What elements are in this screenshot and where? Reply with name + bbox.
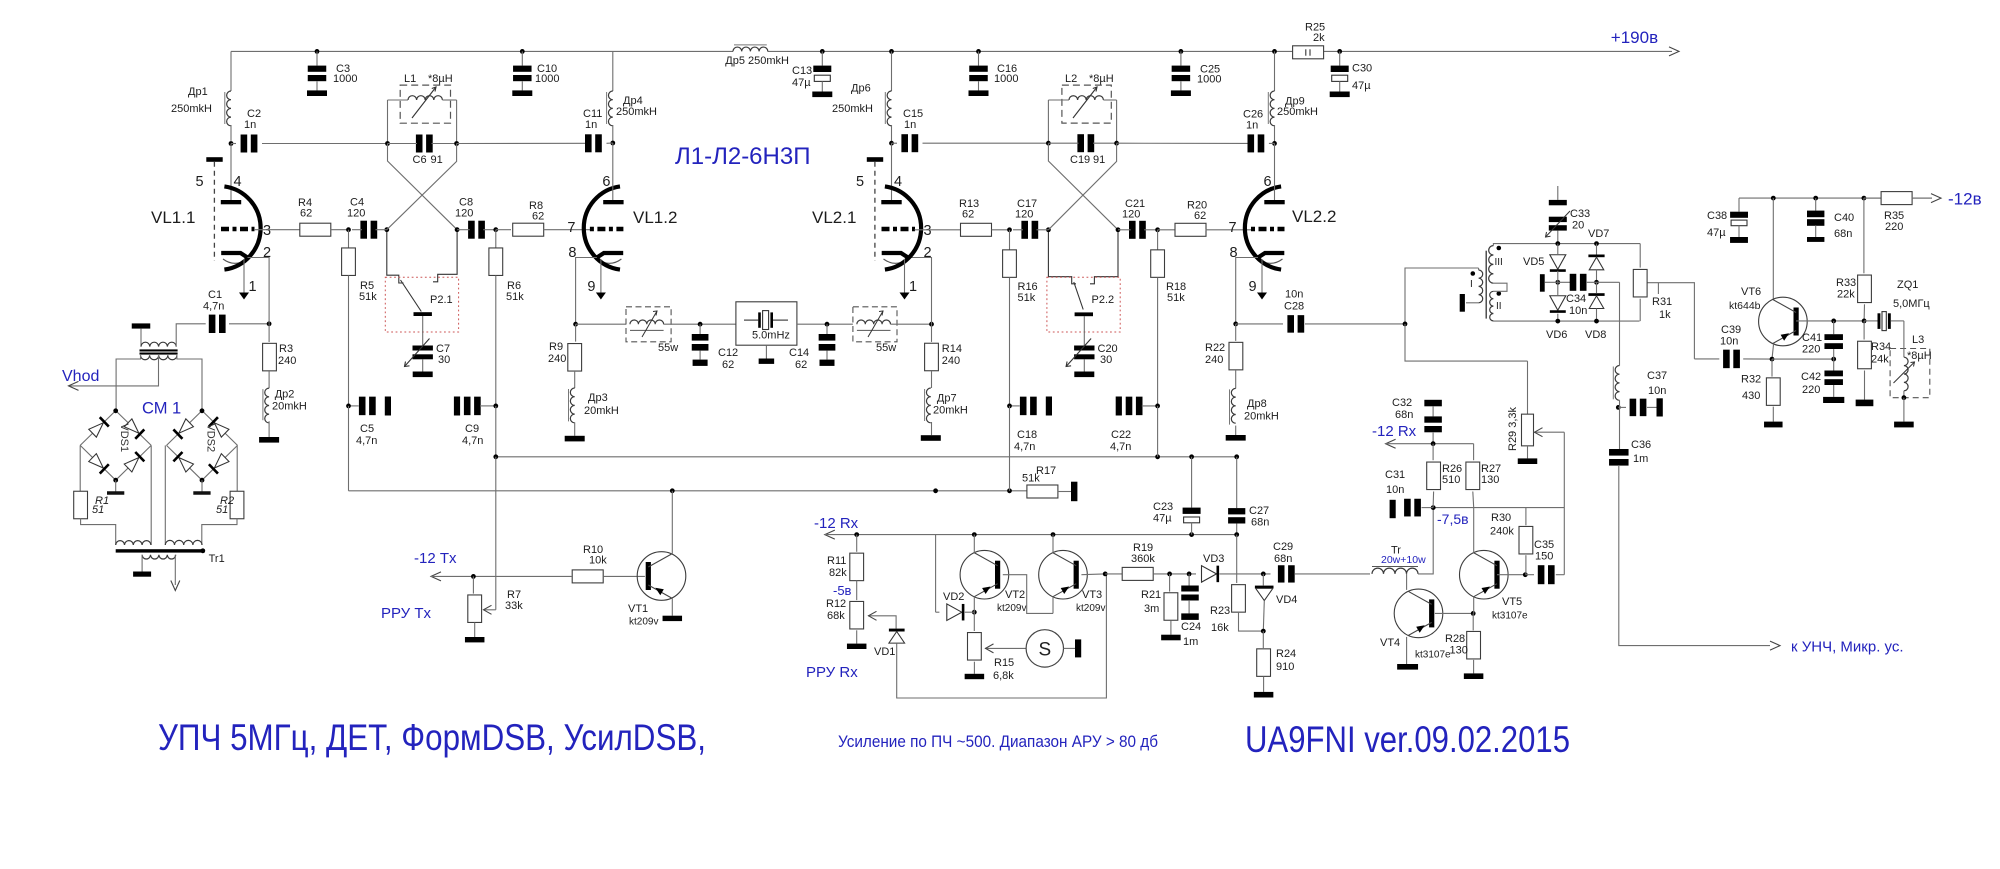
svg-text:68n: 68n xyxy=(1274,553,1292,565)
wire VT3 lower xyxy=(1052,597,1054,614)
svg-text:C9: C9 xyxy=(465,423,479,435)
capacitor C30 polarized xyxy=(1339,51,1341,65)
svg-text:C18: C18 xyxy=(1017,429,1037,441)
wire Tr out up xyxy=(1418,508,1433,574)
wire cross-couple X left xyxy=(388,144,458,230)
svg-text:220: 220 xyxy=(1802,344,1820,356)
wire VL1.2 cathode xyxy=(576,258,597,325)
wire VD5-mid xyxy=(1557,271,1559,283)
capacitor C20 30 variable xyxy=(1083,316,1085,346)
node dot C9 xyxy=(493,404,498,409)
wire secondary right to VDS2 xyxy=(177,355,202,411)
svg-text:7: 7 xyxy=(1229,220,1237,236)
svg-text:Др6: Др6 xyxy=(851,83,871,95)
resistor R20 62 xyxy=(1158,229,1176,231)
node dot R21 top xyxy=(1167,572,1172,577)
svg-text:*8µH: *8µH xyxy=(1907,350,1932,362)
svg-text:C27: C27 xyxy=(1249,505,1269,517)
node dot C32 R26 xyxy=(1431,441,1436,446)
svg-text:C22: C22 xyxy=(1111,429,1131,441)
svg-text:120: 120 xyxy=(347,208,365,220)
capacitor C16 xyxy=(978,51,980,65)
svg-text:120: 120 xyxy=(455,208,473,220)
wire L2 right leg xyxy=(1116,100,1118,143)
svg-text:C30: C30 xyxy=(1352,63,1372,75)
wire C27 to R23 xyxy=(1236,535,1238,583)
svg-text:20mkH: 20mkH xyxy=(584,405,619,417)
svg-text:68n: 68n xyxy=(1834,228,1852,240)
node dot C37 xyxy=(1616,405,1621,410)
node dot C5 xyxy=(346,404,351,409)
resistor R4 62 xyxy=(300,223,331,236)
svg-text:C34: C34 xyxy=(1566,293,1586,305)
svg-text:62: 62 xyxy=(300,208,312,220)
capacitor C10 xyxy=(521,51,523,65)
svg-text:Tr1: Tr1 xyxy=(209,553,225,565)
svg-text:16k: 16k xyxy=(1211,622,1229,634)
svg-text:C35: C35 xyxy=(1534,539,1554,551)
svg-text:9: 9 xyxy=(587,279,595,295)
resistor R27 130 xyxy=(1473,444,1475,461)
svg-text:R15: R15 xyxy=(994,657,1014,669)
transformer det secondary II xyxy=(1490,291,1494,321)
svg-text:C40: C40 xyxy=(1834,212,1854,224)
svg-text:R28: R28 xyxy=(1445,633,1465,645)
svg-text:30: 30 xyxy=(1100,354,1112,366)
ground Dr7 xyxy=(921,435,941,441)
svg-text:-12 Rx: -12 Rx xyxy=(814,515,859,532)
svg-text:*8µH: *8µH xyxy=(1089,73,1114,85)
diode bridge VDS2 xyxy=(167,411,203,446)
wire VL2.1 cathode xyxy=(908,258,932,325)
resistor R19 360k xyxy=(1105,573,1122,575)
node dot VD4 top xyxy=(1261,572,1266,577)
svg-text:250mkH: 250mkH xyxy=(832,103,873,115)
wire R19 out xyxy=(1153,573,1196,575)
wire cross-couple X2 right xyxy=(1048,143,1116,230)
node dot VDS1 bottom xyxy=(113,478,118,483)
resistor R1 51 xyxy=(74,491,88,519)
svg-text:250mkH: 250mkH xyxy=(1277,106,1318,118)
svg-text:Др2: Др2 xyxy=(275,389,295,401)
svg-text:240: 240 xyxy=(278,355,296,367)
node dot C12 xyxy=(698,322,703,327)
svg-text:47µ: 47µ xyxy=(1707,227,1726,239)
wire R29 wiper xyxy=(1534,431,1565,433)
svg-text:4,7n: 4,7n xyxy=(1110,441,1131,453)
svg-text:240: 240 xyxy=(1205,354,1223,366)
node dot VD4 bottom xyxy=(1261,629,1266,634)
svg-text:20mkH: 20mkH xyxy=(1244,411,1279,423)
node dot C24 top xyxy=(1187,572,1192,577)
svg-text:R14: R14 xyxy=(942,343,962,355)
transformer Tr1 winding left xyxy=(116,541,151,545)
node dot Dr6 tap xyxy=(889,49,894,54)
svg-text:VD6: VD6 xyxy=(1546,329,1567,341)
arrow -12 Tx xyxy=(431,572,441,581)
wire bus R5/C5 bias xyxy=(348,406,350,491)
ground R7 xyxy=(474,623,476,638)
svg-text:1000: 1000 xyxy=(1197,74,1221,86)
svg-text:C42: C42 xyxy=(1801,371,1821,383)
resistor R23 16k xyxy=(1232,585,1246,613)
svg-text:R34: R34 xyxy=(1871,341,1891,353)
capacitor C42 220 xyxy=(1833,359,1835,370)
capacitor C34 10n xyxy=(1545,281,1571,283)
svg-text:250mkH: 250mkH xyxy=(748,55,789,67)
node dot VDS2 top xyxy=(200,408,205,413)
resistor R5 51k xyxy=(348,230,350,249)
svg-text:C31: C31 xyxy=(1385,469,1405,481)
svg-text:1n: 1n xyxy=(244,119,256,131)
svg-text:1n: 1n xyxy=(585,119,597,131)
capacitor C19 91 xyxy=(1077,134,1084,152)
svg-text:R30: R30 xyxy=(1491,512,1511,524)
svg-text:360k: 360k xyxy=(1131,553,1155,565)
node dot C13 tap xyxy=(820,49,825,54)
node dot VT5 base xyxy=(1523,572,1528,577)
node dot cathode VL1.2 xyxy=(573,322,578,327)
capacitor C41 220 xyxy=(1833,321,1835,334)
choke Dr6 xyxy=(891,51,893,91)
ground Dr3 xyxy=(565,436,585,442)
wire R4-C4 xyxy=(331,229,349,231)
capacitor C1 4.7n xyxy=(200,323,206,325)
svg-text:3: 3 xyxy=(924,223,932,239)
svg-text:62: 62 xyxy=(532,211,544,223)
svg-text:VL1.2: VL1.2 xyxy=(633,208,677,227)
choke Dr1 xyxy=(230,51,232,91)
svg-text:47µ: 47µ xyxy=(792,77,811,89)
chassis stub VDS2 xyxy=(201,480,203,492)
svg-text:L1: L1 xyxy=(404,73,416,85)
svg-text:130: 130 xyxy=(1481,474,1499,486)
node dot C22 xyxy=(1155,404,1160,409)
resistor R14 240 xyxy=(931,324,933,342)
capacitor C8 120 xyxy=(468,221,475,239)
capacitor C26 1n xyxy=(1117,142,1248,144)
node dot C6 left xyxy=(385,141,390,146)
node dot VD8 mid xyxy=(1594,280,1599,285)
svg-text:10n: 10n xyxy=(1386,484,1404,496)
red dotted box P2.2 xyxy=(1047,277,1120,332)
resistor R32 430 xyxy=(1771,359,1773,377)
choke Dr4 xyxy=(612,51,614,91)
wire III-II jog xyxy=(1493,283,1507,291)
node dot VT3 out xyxy=(1103,572,1108,577)
node dot C23 bottom xyxy=(1189,532,1194,537)
svg-text:к УНЧ, Микр. ус.: к УНЧ, Микр. ус. xyxy=(1791,639,1904,656)
diode VD5 xyxy=(1557,244,1559,254)
svg-text:kt644b: kt644b xyxy=(1729,300,1761,312)
svg-text:510: 510 xyxy=(1442,474,1460,486)
transistor VT3 kt209v xyxy=(1039,550,1088,599)
wire C29 out xyxy=(1295,573,1370,575)
svg-text:4,7n: 4,7n xyxy=(462,435,483,447)
choke Dr2 xyxy=(268,371,270,388)
svg-text:C28: C28 xyxy=(1284,301,1304,313)
svg-text:VL2.2: VL2.2 xyxy=(1292,207,1336,226)
transistor VT6 kt644b xyxy=(1759,297,1808,346)
capacitor C35 150 xyxy=(1525,574,1534,576)
svg-text:1n: 1n xyxy=(1246,120,1258,132)
svg-text:51k: 51k xyxy=(1018,292,1036,304)
wire C28 node to R29 xyxy=(1405,324,1528,361)
svg-text:-12в: -12в xyxy=(1948,190,1982,209)
resistor R24 910 xyxy=(1262,631,1264,648)
input transformer core xyxy=(140,349,178,351)
svg-text:L2: L2 xyxy=(1065,73,1077,85)
svg-text:C38: C38 xyxy=(1707,210,1727,222)
svg-text:1: 1 xyxy=(249,279,257,295)
svg-text:22k: 22k xyxy=(1837,289,1855,301)
svg-text:8: 8 xyxy=(1230,245,1238,261)
node dot Tr1 xyxy=(200,548,205,553)
svg-text:51k: 51k xyxy=(1167,292,1185,304)
svg-text:4: 4 xyxy=(894,174,902,190)
wire VT6 base xyxy=(1796,320,1864,322)
svg-text:9: 9 xyxy=(1249,279,1257,295)
node dot VL2.1 cathode xyxy=(929,322,934,327)
potentiometer R7 33k xyxy=(472,576,474,593)
svg-text:250mkH: 250mkH xyxy=(616,106,657,118)
node dot C41 top xyxy=(1831,319,1836,324)
svg-text:C39: C39 xyxy=(1721,324,1741,336)
svg-text:2k: 2k xyxy=(1313,32,1325,44)
svg-text:20mkH: 20mkH xyxy=(272,401,307,413)
transformer det primary I xyxy=(1479,270,1483,303)
svg-text:VD3: VD3 xyxy=(1203,553,1224,565)
inductor 55w left xyxy=(630,320,664,324)
diode VD3 xyxy=(1202,566,1217,583)
svg-text:C29: C29 xyxy=(1273,541,1293,553)
svg-text:VT6: VT6 xyxy=(1741,286,1761,298)
svg-text:VT5: VT5 xyxy=(1502,596,1522,608)
svg-text:62: 62 xyxy=(795,359,807,371)
inductor 55w right xyxy=(857,320,891,324)
node dot R16 bus xyxy=(1007,488,1012,493)
svg-text:kt209v: kt209v xyxy=(1076,603,1105,614)
wire VT2 lower xyxy=(973,597,975,613)
svg-text:R11: R11 xyxy=(827,555,846,567)
wire R10 to VT1 xyxy=(604,575,645,577)
resistor R16 51k xyxy=(1009,230,1011,250)
choke det out xyxy=(1615,366,1619,401)
wire k UNCH xyxy=(1619,465,1770,646)
node dot R25 left xyxy=(1272,49,1277,54)
red dotted box P2.1 xyxy=(385,277,458,332)
svg-text:1n: 1n xyxy=(904,119,916,131)
svg-text:РРУ Тx: РРУ Тx xyxy=(381,605,432,622)
resistor R10 10k xyxy=(572,570,603,583)
node dot C41 bottom xyxy=(1831,357,1836,362)
wire R29 wiper drop xyxy=(1563,432,1565,575)
choke Dr7 xyxy=(931,371,933,388)
node dot -7.5v xyxy=(1431,505,1436,510)
svg-text:VT2: VT2 xyxy=(1005,589,1025,601)
svg-text:Др1: Др1 xyxy=(188,86,208,98)
transistor VT1 kt209v xyxy=(637,552,686,601)
capacitor C5 4.7n xyxy=(349,405,359,407)
svg-text:R9: R9 xyxy=(549,341,563,353)
wire -12Rx right xyxy=(1386,443,1474,445)
svg-text:*8µH: *8µH xyxy=(428,73,453,85)
wire VT5 base right xyxy=(1497,574,1525,576)
svg-text:C19: C19 xyxy=(1070,154,1090,166)
svg-text:C41: C41 xyxy=(1802,332,1822,344)
wire VT4 base xyxy=(1435,612,1473,614)
svg-text:5: 5 xyxy=(856,174,864,190)
svg-text:6: 6 xyxy=(602,174,610,190)
svg-text:Др8: Др8 xyxy=(1247,398,1267,410)
node dot C14 xyxy=(825,322,830,327)
wire VT4 emitter gnd xyxy=(1406,637,1408,664)
wire R31 link to C39 xyxy=(1647,283,1694,359)
tank L2 dashed box xyxy=(1062,85,1111,123)
svg-text:91: 91 xyxy=(431,154,443,166)
meter S xyxy=(1026,630,1063,667)
wire +190v top supply bus xyxy=(231,50,733,52)
svg-text:VD4: VD4 xyxy=(1276,594,1297,606)
wire VDS1 left to R1 xyxy=(79,445,81,494)
terminator det primary xyxy=(1460,294,1465,312)
potentiometer R15 6.8k xyxy=(973,612,975,631)
wire 55w-C12 xyxy=(664,323,736,325)
svg-text:kt3107e: kt3107e xyxy=(1492,611,1528,622)
wire R2 to Tr1 xyxy=(202,519,237,545)
diode VD1 xyxy=(889,629,905,632)
wire cross-couple X right xyxy=(387,144,457,230)
svg-text:6,8k: 6,8k xyxy=(993,670,1014,682)
wire R1 to Tr1 xyxy=(81,519,116,545)
wire -12v rail xyxy=(1739,197,1932,199)
svg-text:51k: 51k xyxy=(359,291,377,303)
svg-text:VD2: VD2 xyxy=(943,591,964,603)
svg-text:51: 51 xyxy=(92,504,104,516)
resistor R25 2k in bus xyxy=(1293,46,1324,59)
svg-text:20w+10w: 20w+10w xyxy=(1381,554,1426,566)
potentiometer R12 68k xyxy=(856,581,858,601)
wire VT1 emitter gnd xyxy=(671,599,673,616)
transformer det secondary III xyxy=(1489,246,1494,284)
wire cross-couple X2 left xyxy=(1048,143,1118,230)
capacitor C23 47u xyxy=(1191,457,1193,508)
svg-text:51: 51 xyxy=(216,504,228,516)
svg-text:68n: 68n xyxy=(1395,409,1413,421)
svg-text:33k: 33k xyxy=(505,600,523,612)
svg-text:91: 91 xyxy=(1093,154,1105,166)
transistor VT5 kt3107e xyxy=(1460,550,1509,599)
svg-text:РРУ Rx: РРУ Rx xyxy=(806,664,858,681)
diode VD2 xyxy=(947,604,962,621)
svg-text:СМ 1: СМ 1 xyxy=(142,400,181,418)
ground input transformer top xyxy=(132,323,151,328)
node dot bus1 R18 xyxy=(1155,454,1160,459)
node dot bus1 C23 xyxy=(1189,454,1194,459)
capacitor C36 1m xyxy=(1609,449,1629,456)
svg-text:430: 430 xyxy=(1742,390,1760,402)
transformer Tr1 winding right xyxy=(165,540,202,545)
potentiometer R29 3.3k xyxy=(1527,361,1529,414)
resistor R13 62 xyxy=(961,223,992,236)
wire VL1.1 cathode down xyxy=(248,258,270,324)
svg-text:5,0МГц: 5,0МГц xyxy=(1893,298,1930,310)
resistor R31 1k xyxy=(1639,244,1641,268)
capacitor C13 polarized xyxy=(821,51,823,65)
terminator S meter xyxy=(1064,647,1076,649)
wire VDS2 left down xyxy=(164,445,166,545)
capacitor C40 68n xyxy=(1815,198,1817,211)
wire VD2 feed xyxy=(935,535,937,613)
svg-text:-12 Тx: -12 Тx xyxy=(414,550,457,567)
svg-text:10k: 10k xyxy=(589,555,607,567)
ground L3 xyxy=(1903,398,1905,422)
svg-text:-12 Rx: -12 Rx xyxy=(1372,423,1417,440)
relay contact P2.2 xyxy=(1048,232,1076,284)
svg-text:R12: R12 xyxy=(826,598,846,610)
svg-text:Л1-Л2-6Н3П: Л1-Л2-6Н3П xyxy=(675,143,810,170)
relay contact P2.1 xyxy=(387,232,404,283)
resistor R34 24k xyxy=(1863,321,1865,340)
resistor R9 240 xyxy=(575,324,577,341)
ground Dr2 xyxy=(259,437,279,443)
arrow +190v xyxy=(1669,47,1679,56)
wire det top line xyxy=(1493,244,1640,246)
crystal ZQ1 xyxy=(1864,320,1877,322)
wire -12Rx bus xyxy=(825,534,1237,536)
node dot VDS2 bottom xyxy=(200,478,205,483)
svg-text:VDS1: VDS1 xyxy=(118,423,130,452)
transformer 55w left dashed box xyxy=(626,307,671,342)
svg-text:C1: C1 xyxy=(208,289,222,301)
transformer 55w right dashed box xyxy=(853,307,897,342)
capacitor C37 10n xyxy=(1618,406,1626,408)
capacitor C18 4.7n xyxy=(1010,405,1020,407)
wire box-C14 xyxy=(797,323,853,325)
resistor R21 3m xyxy=(1169,574,1171,592)
svg-text:1000: 1000 xyxy=(333,73,357,85)
svg-text:240: 240 xyxy=(942,355,960,367)
svg-text:220: 220 xyxy=(1885,221,1903,233)
dashed box L3 xyxy=(1890,349,1930,398)
wire C17 joints xyxy=(1013,229,1023,231)
wire R16 column to bus2 xyxy=(1009,406,1011,491)
wire center tap Vhod xyxy=(69,355,159,386)
capacitor C14 62 xyxy=(826,324,828,334)
svg-text:-7,5в: -7,5в xyxy=(1437,511,1469,527)
ground R32 xyxy=(1772,407,1774,422)
svg-text:Др5: Др5 xyxy=(725,55,745,67)
arrow -12v xyxy=(1931,194,1941,203)
wire C28 node to transformer xyxy=(1405,268,1479,324)
transistor VT4 kt3107e xyxy=(1394,589,1443,638)
resistor R17 51k xyxy=(1027,485,1058,498)
wire -12Tx line xyxy=(431,575,572,577)
node dot VD8 bottom xyxy=(1594,319,1599,324)
svg-text:10n: 10n xyxy=(1720,336,1738,348)
node dot VT2 emitter top xyxy=(972,532,977,537)
svg-text:4,7n: 4,7n xyxy=(1014,441,1035,453)
svg-text:P2.1: P2.1 xyxy=(430,294,453,306)
capacitor C12 62 xyxy=(699,324,701,334)
capacitor C7 30 variable xyxy=(422,316,424,346)
node dot bus1 start xyxy=(493,454,498,459)
diode VD4 xyxy=(1255,586,1274,589)
wire VT3 emitter top xyxy=(1052,535,1054,553)
svg-text:kt209v: kt209v xyxy=(997,603,1026,614)
node dot C33 xyxy=(1555,241,1560,246)
svg-text:3m: 3m xyxy=(1144,603,1159,615)
